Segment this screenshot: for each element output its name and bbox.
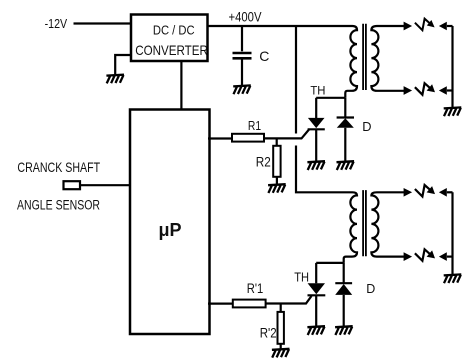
- spark gap 3 spark arrow: [415, 185, 435, 197]
- wire TH' anode to D' cathode / transformer: [316, 262, 344, 264]
- spark gap 2 electrode right: [439, 86, 447, 95]
- wire capacitor top: [241, 26, 243, 51]
- wire uP to R'1: [208, 303, 233, 305]
- ground under R'2: [272, 349, 290, 358]
- spark gap 1 electrode left: [404, 22, 413, 31]
- resistor R1: [232, 134, 264, 142]
- ground right rail bottom: [444, 274, 462, 283]
- wire DC/DC to uP: [180, 62, 182, 110]
- wire D cathode: [344, 98, 346, 117]
- wire +400V rail vertical with crossover gap: [296, 26, 353, 192]
- wire spark gap 1 to rail: [447, 25, 453, 27]
- wire R'2 to ground: [280, 344, 282, 349]
- spark gap 4 spark arrow: [415, 249, 435, 260]
- wire TH cathode to ground: [315, 129, 317, 161]
- wire junction to R'2: [280, 304, 282, 312]
- svg-text:R'2: R'2: [260, 325, 277, 341]
- ground under DC/DC: [106, 75, 124, 84]
- svg-text:R'1: R'1: [247, 281, 263, 296]
- wire +400V rail horizontal: [208, 25, 353, 27]
- transformer T2 primary winding: [344, 192, 357, 263]
- wire D' anode to ground: [343, 295, 345, 326]
- wire R'1 to TH' gate: [266, 296, 312, 304]
- wire right rail top to ground: [451, 26, 453, 107]
- wire D anode to ground: [344, 128, 346, 161]
- microprocessor U2 box: [130, 110, 210, 335]
- resistor R2: [273, 146, 280, 177]
- DC/DC converter U1 box: [131, 15, 208, 62]
- wire uP to R1: [208, 137, 232, 139]
- resistor R'1: [233, 300, 266, 308]
- spark gap 2 spark arrow: [415, 83, 435, 95]
- ground under D: [337, 161, 355, 170]
- spark gap 4 electrode left: [404, 252, 413, 261]
- transformer T1 core: [363, 24, 366, 90]
- svg-text:μP: μP: [159, 220, 182, 240]
- resistor R'2: [278, 312, 284, 344]
- spark gap 2 electrode left: [404, 86, 413, 95]
- transformer T1 secondary winding: [371, 26, 404, 91]
- ground under capacitor: [233, 85, 251, 94]
- thyristor TH' (bottom): [308, 283, 326, 295]
- transformer T2 core: [363, 190, 366, 256]
- capacitor C: [233, 53, 252, 58]
- wire spark gap 2 to rail: [447, 89, 453, 91]
- spark gap 3 electrode left: [404, 188, 413, 197]
- ground under TH': [307, 326, 325, 335]
- svg-text:D: D: [366, 282, 375, 296]
- wire TH' anode: [315, 263, 317, 283]
- svg-text:R2: R2: [256, 154, 271, 169]
- svg-text:D: D: [362, 119, 371, 134]
- svg-text:-12V: -12V: [45, 16, 68, 31]
- wire spark gap 4 to rail: [447, 256, 453, 258]
- wire right rail bottom to ground: [451, 192, 453, 274]
- svg-text:CRANCK SHAFT: CRANCK SHAFT: [17, 159, 100, 175]
- wire R1 to TH gate: [264, 130, 309, 139]
- thyristor TH (top): [308, 118, 325, 129]
- svg-text:TH: TH: [310, 83, 325, 97]
- spark gap 3 electrode right: [439, 188, 447, 197]
- spark gap 4 electrode right: [439, 252, 447, 261]
- svg-text:+400V: +400V: [229, 9, 262, 24]
- wire junction to R2: [276, 139, 278, 146]
- wire capacitor bottom: [241, 59, 243, 85]
- spark gap 1 spark arrow: [415, 19, 435, 31]
- diode D (top): [337, 118, 354, 128]
- wire R2 to ground: [276, 177, 278, 184]
- transformer T2 secondary winding: [371, 192, 404, 256]
- wire sensor to uP: [80, 184, 130, 186]
- svg-text:DC / DC: DC / DC: [153, 23, 195, 38]
- transformer T1 primary winding: [345, 26, 357, 98]
- ground under TH: [307, 161, 325, 170]
- svg-text:R1: R1: [248, 118, 261, 133]
- wire TH anode: [315, 98, 317, 118]
- svg-text:TH: TH: [294, 269, 309, 284]
- svg-text:ANGLE SENSOR: ANGLE SENSOR: [17, 197, 100, 212]
- wire D' cathode: [343, 263, 345, 283]
- ground under R2: [268, 184, 286, 193]
- svg-text:CONVERTER: CONVERTER: [135, 42, 208, 58]
- spark gap 1 electrode right: [439, 22, 447, 31]
- wire DC/DC left to ground: [115, 55, 131, 74]
- wire spark gap 3 to rail: [447, 191, 453, 193]
- wire -12V to DC/DC converter: [74, 22, 132, 24]
- wire TH' cathode to ground: [315, 295, 317, 326]
- ground under D': [335, 326, 353, 335]
- diode D' (bottom): [335, 283, 352, 295]
- crank shaft angle sensor box: [64, 181, 81, 189]
- ground right rail top: [444, 107, 462, 116]
- svg-text:C: C: [259, 48, 269, 64]
- wire TH anode to D cathode / transformer: [316, 97, 345, 99]
